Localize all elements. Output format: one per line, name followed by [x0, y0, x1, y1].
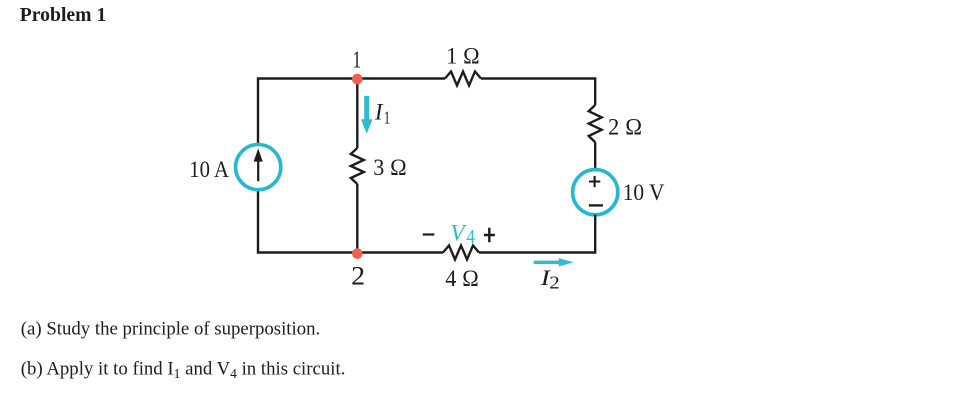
svg-text:2: 2 — [351, 262, 365, 291]
node 2 (red junction dot) — [352, 248, 363, 259]
svg-text:1 Ω: 1 Ω — [446, 43, 480, 69]
svg-text:2 Ω: 2 Ω — [608, 114, 642, 140]
wire: left branch bottom with bottom-left corner (to node 2) — [258, 189, 358, 252]
svg-text:1: 1 — [384, 108, 391, 128]
wire: middle branch top (node 1 to resistor 3Ω) — [356, 79, 358, 149]
svg-text:10 V: 10 V — [623, 180, 665, 206]
svg-text:4: 4 — [466, 226, 475, 248]
label plus (V4 polarity) — [484, 228, 495, 243]
svg-text:1: 1 — [353, 47, 362, 74]
svg-text:4 Ω: 4 Ω — [445, 266, 479, 292]
label minus (V4 polarity) — [423, 233, 435, 235]
svg-text:3 Ω: 3 Ω — [373, 155, 407, 181]
svg-text:I: I — [374, 100, 384, 125]
resistor 2Ω (right branch) — [589, 105, 602, 142]
wire: top-middle segment (node 1 to resistor R1) — [356, 77, 445, 79]
resistor 4Ω (bottom) — [443, 246, 479, 260]
wire: top-right segment with corner (resistor R1 to 2Ω) — [481, 79, 595, 106]
wire: bottom-left segment (node 2 to resistor 4Ω) — [356, 251, 443, 253]
svg-text:V: V — [450, 221, 467, 247]
plus sign of voltage source — [589, 176, 600, 187]
svg-text:10 A: 10 A — [189, 157, 229, 183]
svg-text:(a) Study the principle of sup: (a) Study the principle of superposition… — [21, 319, 320, 340]
svg-text:2: 2 — [549, 273, 560, 293]
wire: left branch top with top-left corner (to node 1) — [258, 79, 358, 146]
svg-text:Problem 1: Problem 1 — [20, 4, 107, 26]
arrow of current source — [257, 160, 259, 181]
voltage source 10V — [573, 170, 618, 215]
current arrow I2 (cyan, rightward) — [534, 261, 560, 264]
svg-text:(b) Apply it to find I1 and V4: (b) Apply it to find I1 and V4 in this c… — [21, 358, 346, 381]
minus sign of voltage source — [589, 204, 603, 206]
resistor 3Ω (middle branch) — [351, 148, 364, 184]
wire: right segment (resistor 2Ω to voltage source) — [594, 142, 596, 170]
current source 10A — [236, 145, 281, 190]
resistor 1Ω (top) — [445, 72, 481, 86]
wire: middle branch bottom (resistor 3Ω to node 2) — [356, 184, 358, 253]
node 1 (red junction dot) — [352, 74, 363, 85]
current arrow I1 (cyan, downward) — [364, 96, 369, 121]
wire: bottom-right segment with corner (voltage source to resistor 4Ω) — [479, 215, 595, 253]
